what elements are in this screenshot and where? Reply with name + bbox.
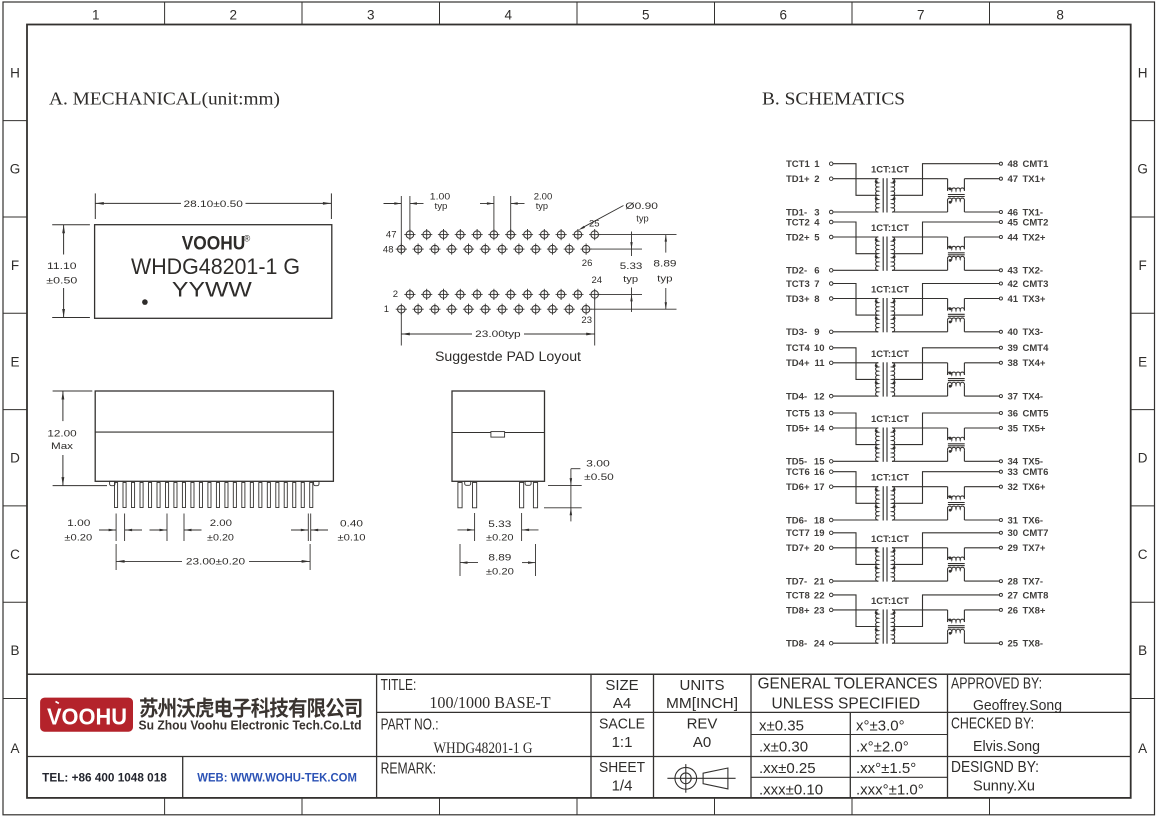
terminal pin 27 CMT8 xyxy=(999,593,1002,596)
svg-text:2: 2 xyxy=(230,7,238,22)
svg-text:1: 1 xyxy=(92,7,100,22)
dimension 23.00±0.20 xyxy=(115,544,117,570)
svg-text:TD4-: TD4- xyxy=(786,392,807,403)
svg-text:30: 30 xyxy=(1008,528,1019,539)
common-mode choke L4 xyxy=(947,363,949,375)
svg-text:24: 24 xyxy=(814,639,825,650)
svg-text:8: 8 xyxy=(814,294,819,305)
terminal pin 46 TX1- xyxy=(999,210,1002,213)
svg-text:TX5+: TX5+ xyxy=(1023,423,1046,434)
terminal pin 14 TD5+ xyxy=(829,426,833,430)
svg-text:REMARK:: REMARK: xyxy=(381,760,436,777)
transformer T1 secondary winding xyxy=(892,179,895,212)
common-mode choke L6 xyxy=(947,487,949,499)
svg-text:TX8-: TX8- xyxy=(1023,639,1044,650)
svg-text:TX1+: TX1+ xyxy=(1023,174,1046,185)
svg-text:9: 9 xyxy=(814,327,819,338)
transformer T1 primary winding xyxy=(876,179,879,212)
svg-text:F: F xyxy=(11,258,19,273)
terminal pin 32 TX6+ xyxy=(999,485,1002,488)
svg-text:±0.10: ±0.10 xyxy=(338,533,366,544)
svg-text:1CT:1CT: 1CT:1CT xyxy=(871,223,909,234)
svg-text:.xxx°±1.0°: .xxx°±1.0° xyxy=(856,782,924,799)
svg-text:5: 5 xyxy=(814,232,820,243)
svg-text:SIZE: SIZE xyxy=(605,677,638,694)
svg-text:1: 1 xyxy=(814,159,820,170)
svg-text:1/4: 1/4 xyxy=(612,777,633,794)
svg-text:TCT7: TCT7 xyxy=(786,528,810,539)
package front view outline xyxy=(95,391,333,481)
svg-text:11.10: 11.10 xyxy=(47,261,77,272)
svg-text:0.40: 0.40 xyxy=(340,519,363,530)
svg-text:Geoffrey.Song: Geoffrey.Song xyxy=(973,697,1062,714)
wire TD4+ to primary top xyxy=(833,362,878,364)
wire TD2- to primary bottom xyxy=(833,269,878,271)
common-mode choke L1 xyxy=(947,179,949,191)
svg-text:±0.50: ±0.50 xyxy=(46,275,77,286)
svg-text:47: 47 xyxy=(1008,174,1019,185)
transformer T3 primary winding xyxy=(876,298,879,331)
wire TCT1 to primary center tap xyxy=(833,164,877,196)
svg-text:G: G xyxy=(10,162,21,177)
dimension 5.33±0.20 side xyxy=(474,513,476,541)
svg-text:22: 22 xyxy=(814,590,825,601)
terminal pin 33 CMT6 xyxy=(999,470,1002,473)
svg-text:2.00: 2.00 xyxy=(210,518,232,529)
terminal pin 13 TCT5 xyxy=(829,411,833,415)
wire secondary bottom to choke xyxy=(892,460,948,462)
svg-text:36: 36 xyxy=(1008,408,1019,419)
dimension 11.10±0.50 xyxy=(52,224,90,226)
wire choke to TX7- xyxy=(964,580,999,582)
dimension 8.89 typ xyxy=(665,235,667,253)
svg-text:CMT5: CMT5 xyxy=(1023,408,1050,419)
dimension 0.40±0.10 xyxy=(307,514,309,542)
transformer T6 core xyxy=(882,486,884,520)
wire secondary center tap to CMT4 xyxy=(894,348,1000,380)
svg-text:TD6-: TD6- xyxy=(786,515,807,526)
svg-text:TCT6: TCT6 xyxy=(786,467,810,478)
wire secondary top to choke xyxy=(892,178,948,180)
svg-text:42: 42 xyxy=(1008,279,1019,290)
wire TD1+ to primary top xyxy=(833,178,878,180)
svg-text:TCT5: TCT5 xyxy=(786,408,810,419)
svg-text:3.00: 3.00 xyxy=(586,459,610,470)
terminal pin 44 TX2+ xyxy=(999,235,1002,238)
svg-text:18: 18 xyxy=(814,515,825,526)
terminal pin 3 TD1- xyxy=(829,210,833,214)
svg-text:.xxx±0.10: .xxx±0.10 xyxy=(759,782,823,799)
svg-text:TD4+: TD4+ xyxy=(786,358,810,369)
pad row 47 (12 pads) xyxy=(404,229,600,240)
wire TD3+ to primary top xyxy=(833,298,878,300)
svg-text:CMT4: CMT4 xyxy=(1023,343,1050,354)
terminal pin 38 TX4+ xyxy=(999,361,1002,364)
svg-text:.xx±0.25: .xx±0.25 xyxy=(759,760,816,777)
transformer T5 primary winding xyxy=(876,428,879,461)
svg-text:27: 27 xyxy=(1008,590,1019,601)
terminal pin 35 TX5+ xyxy=(999,426,1002,429)
pin 1 index dot xyxy=(142,299,148,305)
svg-text:A: A xyxy=(10,741,19,756)
svg-text:TCT1: TCT1 xyxy=(786,159,810,170)
svg-text:TD2-: TD2- xyxy=(786,266,807,277)
package top view outline xyxy=(95,225,332,319)
svg-text:±0.20: ±0.20 xyxy=(486,567,514,578)
svg-text:E: E xyxy=(1138,354,1147,369)
wire secondary center tap to CMT8 xyxy=(894,595,1000,627)
company name Chinese xyxy=(140,698,361,718)
transformer T1 core xyxy=(882,178,884,212)
svg-text:TCT2: TCT2 xyxy=(786,217,810,228)
wire secondary bottom to choke xyxy=(892,580,948,582)
wire secondary bottom to choke xyxy=(892,269,948,271)
wire TD5- to primary bottom xyxy=(833,460,878,462)
svg-text:4: 4 xyxy=(814,217,820,228)
terminal pin 45 CMT2 xyxy=(999,220,1002,223)
dimension 23.00 typ xyxy=(400,313,402,346)
svg-text:WEB: WWW.WOHU-TEK.COM: WEB: WWW.WOHU-TEK.COM xyxy=(197,773,357,785)
wire choke to TX2+ xyxy=(964,236,999,238)
svg-text:TX5-: TX5- xyxy=(1023,457,1044,468)
svg-text:1CT:1CT: 1CT:1CT xyxy=(871,349,909,360)
terminal pin 21 TD7- xyxy=(829,579,833,583)
svg-text:D: D xyxy=(1138,451,1148,466)
terminal pin 34 TX5- xyxy=(999,460,1002,463)
svg-text:CMT1: CMT1 xyxy=(1023,159,1050,170)
svg-text:TD6+: TD6+ xyxy=(786,482,810,493)
svg-text:H: H xyxy=(1138,65,1148,80)
projection symbol xyxy=(667,764,735,793)
dimension 1.00 typ xyxy=(400,196,402,252)
transformer T4 core xyxy=(882,362,884,396)
svg-text:.x±0.30: .x±0.30 xyxy=(759,739,808,756)
svg-text:TX2-: TX2- xyxy=(1023,266,1044,277)
wire TD4- to primary bottom xyxy=(833,395,878,397)
dimension 12.00 Max xyxy=(53,390,93,392)
svg-text:1:1: 1:1 xyxy=(612,734,633,751)
svg-text:Ø0.90: Ø0.90 xyxy=(625,201,658,212)
terminal pin 25 TX8- xyxy=(999,642,1002,645)
svg-text:6: 6 xyxy=(779,7,787,22)
side pins x4 xyxy=(458,483,462,508)
svg-text:H: H xyxy=(10,65,20,80)
svg-text:23: 23 xyxy=(814,605,825,616)
svg-text:1: 1 xyxy=(384,304,389,315)
wire secondary center tap to CMT1 xyxy=(894,164,1000,196)
svg-text:WHDG48201-1 G: WHDG48201-1 G xyxy=(433,740,532,757)
svg-text:43: 43 xyxy=(1008,266,1019,277)
terminal pin 24 TD8- xyxy=(829,641,833,645)
wire choke to TX1+ xyxy=(964,178,999,180)
wire choke to TX5+ xyxy=(964,427,999,429)
svg-text:12.00: 12.00 xyxy=(47,429,76,440)
svg-text:C: C xyxy=(10,547,20,562)
logo VOOHU xyxy=(41,698,133,731)
common-mode choke L7 xyxy=(947,548,949,560)
svg-text:35: 35 xyxy=(1008,423,1019,434)
svg-text:23: 23 xyxy=(581,315,592,326)
svg-text:TD5-: TD5- xyxy=(786,457,807,468)
svg-text:Su Zhou Voohu Electronic Tech.: Su Zhou Voohu Electronic Tech.Co.Ltd xyxy=(139,719,362,733)
svg-text:Sunny.Xu: Sunny.Xu xyxy=(973,777,1035,794)
svg-text:45: 45 xyxy=(1008,217,1019,228)
svg-text:37: 37 xyxy=(1008,392,1019,403)
terminal pin 11 TD4+ xyxy=(829,361,833,365)
terminal pin 43 TX2- xyxy=(999,269,1002,272)
svg-text:A4: A4 xyxy=(613,695,631,712)
wire choke to TX3+ xyxy=(964,298,999,300)
svg-text:34: 34 xyxy=(1008,457,1019,468)
svg-text:14: 14 xyxy=(814,423,825,434)
svg-text:1CT:1CT: 1CT:1CT xyxy=(871,596,909,607)
svg-text:x±0.35: x±0.35 xyxy=(759,717,804,734)
transformer T3 secondary winding xyxy=(892,298,895,331)
svg-text:1CT:1CT: 1CT:1CT xyxy=(871,414,909,425)
svg-text:TX4+: TX4+ xyxy=(1023,358,1046,369)
svg-text:WHDG48201-1 G: WHDG48201-1 G xyxy=(131,254,300,279)
wire TD6- to primary bottom xyxy=(833,519,878,521)
terminal pin 42 CMT3 xyxy=(999,282,1002,285)
svg-text:CMT6: CMT6 xyxy=(1023,467,1049,478)
svg-text:PART NO.:: PART NO.: xyxy=(381,716,439,733)
wire secondary bottom to choke xyxy=(892,519,948,521)
wire secondary top to choke xyxy=(892,547,948,549)
svg-text:41: 41 xyxy=(1008,294,1019,305)
common-mode choke L3 xyxy=(947,299,949,311)
svg-text:GENERAL TOLERANCES: GENERAL TOLERANCES xyxy=(758,676,938,693)
svg-text:Elvis.Song: Elvis.Song xyxy=(973,738,1040,755)
transformer T8 primary winding xyxy=(876,610,879,643)
common-mode choke L2 xyxy=(947,237,949,249)
wire secondary top to choke xyxy=(892,427,948,429)
svg-text:TCT8: TCT8 xyxy=(786,590,810,601)
svg-text:TD3+: TD3+ xyxy=(786,294,810,305)
wire choke to TX7+ xyxy=(964,547,999,549)
svg-text:21: 21 xyxy=(814,577,825,588)
svg-text:24: 24 xyxy=(592,275,603,286)
svg-text:C: C xyxy=(1138,547,1148,562)
wire secondary top to choke xyxy=(892,236,948,238)
svg-text:TD7+: TD7+ xyxy=(786,543,810,554)
svg-text:48: 48 xyxy=(1008,159,1019,170)
svg-text:B. SCHEMATICS: B. SCHEMATICS xyxy=(762,89,905,109)
terminal pin 10 TCT4 xyxy=(829,346,833,350)
svg-text:CMT3: CMT3 xyxy=(1023,279,1049,290)
svg-text:28: 28 xyxy=(1008,577,1019,588)
svg-text:TX6+: TX6+ xyxy=(1023,482,1046,493)
terminal pin 23 TD8+ xyxy=(829,608,833,612)
wire TD3- to primary bottom xyxy=(833,331,878,333)
svg-text:x°±3.0°: x°±3.0° xyxy=(856,717,905,734)
svg-text:TD7-: TD7- xyxy=(786,577,807,588)
svg-text:3: 3 xyxy=(367,7,375,22)
svg-text:13: 13 xyxy=(814,408,825,419)
svg-text:±0.50: ±0.50 xyxy=(584,472,614,483)
wire TCT4 to primary center tap xyxy=(833,348,877,380)
svg-text:28.10±0.50: 28.10±0.50 xyxy=(184,199,243,210)
svg-text:Max: Max xyxy=(51,441,73,452)
svg-text:SHEET: SHEET xyxy=(599,759,645,776)
svg-text:TX8+: TX8+ xyxy=(1023,605,1046,616)
svg-text:VOOHU: VOOHU xyxy=(182,232,246,254)
transformer T5 secondary winding xyxy=(892,428,895,461)
terminal pin 9 TD3- xyxy=(829,330,833,334)
svg-text:TD5+: TD5+ xyxy=(786,423,810,434)
wire TCT6 to primary center tap xyxy=(833,472,877,504)
dimension 2.00 typ xyxy=(493,196,495,237)
terminal pin 36 CMT5 xyxy=(999,411,1002,414)
terminal pin 17 TD6+ xyxy=(829,485,833,489)
wire secondary center tap to CMT5 xyxy=(894,413,1000,445)
front pins x24 xyxy=(115,483,313,508)
transformer T4 primary winding xyxy=(876,363,879,396)
svg-text:48: 48 xyxy=(383,244,394,255)
terminal pin 22 TCT8 xyxy=(829,593,833,597)
transformer T7 core xyxy=(882,547,884,581)
svg-text:26: 26 xyxy=(582,258,593,269)
svg-text:TD3-: TD3- xyxy=(786,327,807,338)
transformer T2 core xyxy=(882,237,884,271)
svg-text:100/1000 BASE-T: 100/1000 BASE-T xyxy=(429,693,551,712)
wire secondary bottom to choke xyxy=(892,642,948,644)
svg-text:typ: typ xyxy=(636,213,648,224)
terminal pin 48 CMT1 xyxy=(999,162,1002,165)
svg-text:40: 40 xyxy=(1008,327,1019,338)
wire TD8+ to primary top xyxy=(833,609,878,611)
terminal pin 41 TX3+ xyxy=(999,297,1002,300)
wire choke to TX8- xyxy=(964,642,999,644)
wire choke to TX8+ xyxy=(964,609,999,611)
svg-text:APPROVED BY:: APPROVED BY: xyxy=(951,676,1042,693)
terminal pin 20 TD7+ xyxy=(829,546,833,550)
svg-text:MM[INCH]: MM[INCH] xyxy=(666,695,738,712)
svg-text:2: 2 xyxy=(814,174,819,185)
svg-text:38: 38 xyxy=(1008,358,1019,369)
wire TD6+ to primary top xyxy=(833,486,878,488)
svg-text:TCT4: TCT4 xyxy=(786,343,810,354)
terminal pin 7 TCT3 xyxy=(829,282,833,286)
svg-text:2: 2 xyxy=(393,289,398,300)
terminal pin 4 TCT2 xyxy=(829,220,833,224)
terminal pin 16 TCT6 xyxy=(829,470,833,474)
svg-text:TX2+: TX2+ xyxy=(1023,232,1046,243)
wire secondary center tap to CMT2 xyxy=(894,222,1000,254)
dimension 1.00±0.20 xyxy=(115,514,117,542)
svg-text:G: G xyxy=(1137,162,1148,177)
svg-text:39: 39 xyxy=(1008,343,1019,354)
transformer T8 core xyxy=(882,609,884,643)
pad row 1 (12 pads) xyxy=(396,304,592,315)
transformer T6 secondary winding xyxy=(892,487,895,520)
wire choke to TX3- xyxy=(964,331,999,333)
svg-text:TEL: +86 400 1048 018: TEL: +86 400 1048 018 xyxy=(42,773,167,785)
svg-text:17: 17 xyxy=(814,482,825,493)
svg-text:F: F xyxy=(1138,258,1146,273)
svg-text:47: 47 xyxy=(386,229,397,240)
wire choke to TX4- xyxy=(964,395,999,397)
svg-text:10: 10 xyxy=(814,343,825,354)
terminal pin 2 TD1+ xyxy=(829,177,833,181)
svg-text:TX6-: TX6- xyxy=(1023,515,1044,526)
terminal pin 6 TD2- xyxy=(829,269,833,273)
terminal pin 26 TX8+ xyxy=(999,608,1002,611)
svg-text:CHECKED BY:: CHECKED BY: xyxy=(951,715,1034,732)
wire TD8- to primary bottom xyxy=(833,642,878,644)
svg-text:19: 19 xyxy=(814,528,825,539)
svg-text:33: 33 xyxy=(1008,467,1019,478)
terminal pin 8 TD3+ xyxy=(829,297,833,301)
svg-text:TX3-: TX3- xyxy=(1023,327,1044,338)
svg-text:25: 25 xyxy=(589,219,600,230)
terminal pin 39 CMT4 xyxy=(999,346,1002,349)
transformer T6 primary winding xyxy=(876,487,879,520)
svg-text:A: A xyxy=(1138,741,1147,756)
svg-text:23.00±0.20: 23.00±0.20 xyxy=(186,557,245,568)
svg-text:1CT:1CT: 1CT:1CT xyxy=(871,534,909,545)
svg-text:32: 32 xyxy=(1008,482,1019,493)
svg-text:UNLESS SPECIFIED: UNLESS SPECIFIED xyxy=(772,695,921,712)
mounting feet xyxy=(110,481,115,485)
terminal pin 40 TX3- xyxy=(999,330,1002,333)
svg-text:15: 15 xyxy=(814,457,825,468)
svg-text:5: 5 xyxy=(642,7,650,22)
svg-text:4: 4 xyxy=(504,7,512,22)
terminal pin 37 TX4- xyxy=(999,395,1002,398)
dimension 2.00±0.20 xyxy=(166,514,168,542)
svg-text:D: D xyxy=(10,451,20,466)
terminal pin 28 TX7- xyxy=(999,580,1002,583)
extension lines right xyxy=(600,234,677,236)
svg-text:TX3+: TX3+ xyxy=(1023,294,1046,305)
svg-text:25: 25 xyxy=(1008,639,1019,650)
svg-text:B: B xyxy=(10,643,19,658)
wire secondary center tap to CMT7 xyxy=(894,533,1000,565)
wire TD1- to primary bottom xyxy=(833,211,878,213)
wire choke to TX1- xyxy=(964,211,999,213)
wire secondary top to choke xyxy=(892,362,948,364)
title block grid xyxy=(27,674,1131,798)
svg-text:1CT:1CT: 1CT:1CT xyxy=(871,285,909,296)
svg-text:1CT:1CT: 1CT:1CT xyxy=(871,165,909,176)
wire choke to TX2- xyxy=(964,269,999,271)
svg-text:8.89: 8.89 xyxy=(488,553,511,564)
vent slot xyxy=(491,432,505,438)
svg-text:±0.20: ±0.20 xyxy=(64,533,92,544)
svg-text:typ: typ xyxy=(657,273,672,284)
svg-text:31: 31 xyxy=(1008,515,1019,526)
terminal pin 12 TD4- xyxy=(829,394,833,398)
svg-text:TX4-: TX4- xyxy=(1023,392,1044,403)
common-mode choke L8 xyxy=(947,610,949,622)
svg-text:B: B xyxy=(1138,643,1147,658)
terminal pin 1 TCT1 xyxy=(829,162,833,166)
terminal pin 15 TD5- xyxy=(829,460,833,464)
transformer T3 core xyxy=(882,298,884,332)
svg-text:TD1+: TD1+ xyxy=(786,174,810,185)
wire secondary center tap to CMT6 xyxy=(894,472,1000,504)
wire secondary top to choke xyxy=(892,298,948,300)
transformer T7 secondary winding xyxy=(892,548,895,581)
svg-text:typ: typ xyxy=(536,201,548,212)
transformer T7 primary winding xyxy=(876,548,879,581)
svg-text:TD2+: TD2+ xyxy=(786,232,810,243)
callout Ø0.90 typ leader xyxy=(582,206,624,229)
svg-text:29: 29 xyxy=(1008,543,1019,554)
svg-text:A0: A0 xyxy=(693,734,711,751)
svg-text:20: 20 xyxy=(814,543,825,554)
svg-text:7: 7 xyxy=(917,7,925,22)
